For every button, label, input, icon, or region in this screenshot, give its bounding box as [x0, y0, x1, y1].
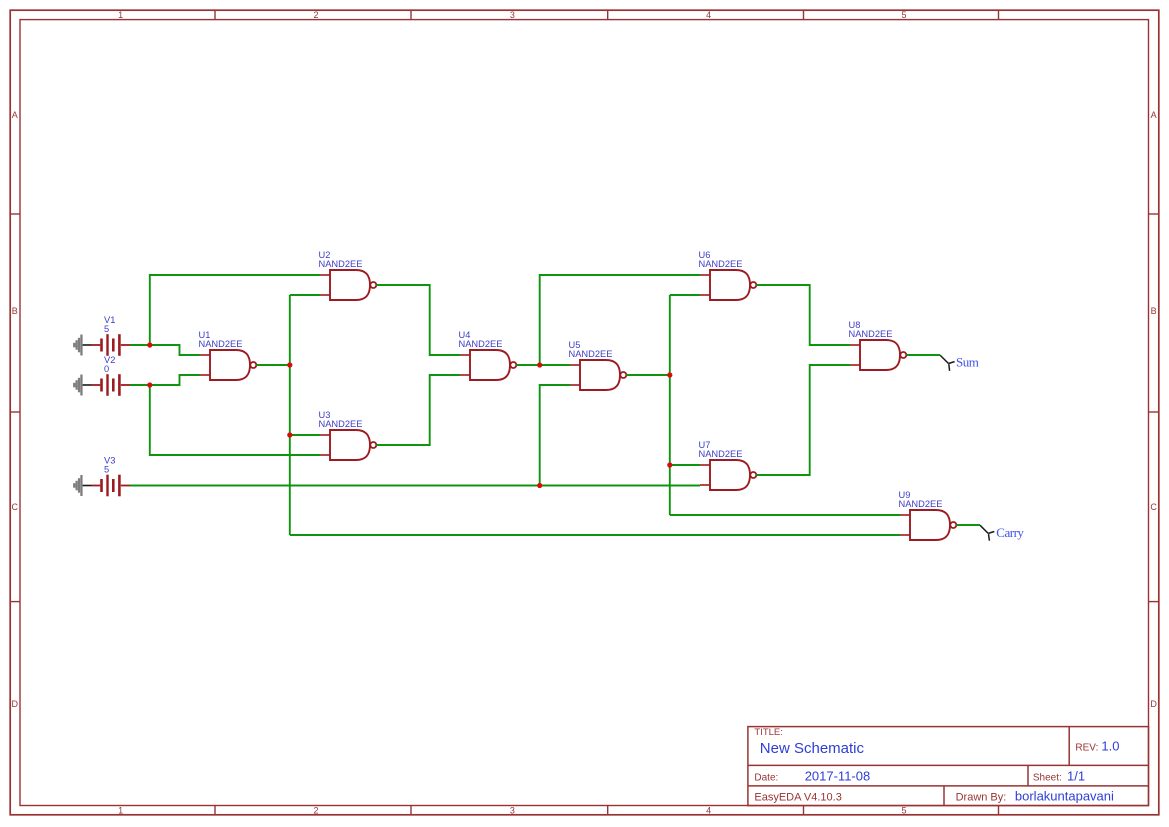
frame row letters right — [1150, 110, 1157, 709]
wire V1 node to U1 pin1 — [150, 345, 200, 355]
wire U3 output to U4 pin2 — [376, 375, 460, 445]
svg-text:NAND2EE: NAND2EE — [319, 419, 363, 429]
wire to U3 pin1 — [290, 434, 320, 436]
NAND gate U2 (NAND2EE) — [319, 250, 377, 300]
title block REV divider — [1068, 727, 1070, 766]
frame column numbers bottom — [118, 805, 906, 815]
svg-text:1/1: 1/1 — [1067, 768, 1085, 783]
svg-text:Carry: Carry — [996, 525, 1024, 540]
svg-text:D: D — [12, 699, 19, 709]
svg-text:5: 5 — [901, 805, 906, 815]
svg-text:5: 5 — [104, 465, 109, 475]
svg-text:3: 3 — [510, 10, 515, 20]
junction node U1 out — [287, 362, 292, 367]
NAND gate U7 (NAND2EE) — [699, 440, 757, 490]
junction node U5 out — [667, 372, 672, 377]
title block Sheet divider — [1027, 765, 1029, 786]
netflag Carry — [980, 525, 1024, 541]
svg-text:Sum: Sum — [956, 355, 979, 370]
wire node to U6 pin1 — [540, 275, 700, 365]
frame row letters left — [12, 110, 19, 709]
svg-text:NAND2EE: NAND2EE — [199, 339, 243, 349]
svg-text:2017-11-08: 2017-11-08 — [805, 768, 871, 783]
svg-text:New Schematic: New Schematic — [760, 740, 865, 757]
wire V3 rail to U7 pin2 — [130, 485, 700, 487]
wire U5 output vertical bus — [669, 295, 671, 515]
voltage source V3 value 5 — [92, 456, 131, 497]
frame row tick marks left — [10, 214, 20, 602]
wire to U2 pin2 — [290, 294, 320, 296]
svg-text:A: A — [12, 110, 18, 120]
svg-text:0: 0 — [104, 364, 109, 374]
svg-text:NAND2EE: NAND2EE — [699, 259, 743, 269]
frame column tick marks top — [215, 10, 999, 19]
NAND gate U3 (NAND2EE) — [319, 410, 377, 460]
junction node V3 rail / U5 pin2 — [537, 483, 542, 488]
svg-text:4: 4 — [706, 805, 711, 815]
voltage source V1 value 5 — [92, 315, 131, 356]
junction node U7 pin1 — [667, 462, 672, 467]
svg-text:NAND2EE: NAND2EE — [699, 449, 743, 459]
junction node V1/U1/U2 — [147, 342, 152, 347]
junction node U3 pin1 — [287, 432, 292, 437]
wire node to U5 pin1 — [540, 364, 570, 366]
wire U1 output to node — [256, 364, 289, 366]
wire V1 node to U2 pin1 — [150, 275, 320, 345]
wire U5 pin2 to V3 rail — [540, 385, 570, 486]
svg-text:5: 5 — [901, 10, 906, 20]
frame column numbers top — [118, 10, 906, 20]
svg-text:B: B — [1151, 306, 1157, 316]
title block row line 1 — [748, 764, 1149, 766]
title block DrawnBy divider — [943, 786, 945, 806]
wire U7 output to U8 pin2 — [756, 365, 850, 475]
svg-text:4: 4 — [706, 10, 711, 20]
svg-text:C: C — [12, 502, 19, 512]
ground (V1) — [73, 335, 91, 356]
svg-text:D: D — [1150, 699, 1157, 709]
wire U8 output to Sum flag — [907, 354, 941, 356]
svg-text:NAND2EE: NAND2EE — [459, 339, 503, 349]
wire V2 to node — [130, 384, 150, 386]
voltage source V2 value 0 — [92, 355, 131, 396]
wire U9 output to Carry flag — [957, 524, 981, 526]
wire to U6 pin2 — [670, 294, 700, 296]
svg-text:A: A — [1151, 110, 1157, 120]
svg-text:NAND2EE: NAND2EE — [899, 499, 943, 509]
NAND gate U9 (NAND2EE) — [899, 490, 957, 540]
NAND gate U5 (NAND2EE) — [569, 340, 627, 390]
svg-text:Sheet:: Sheet: — [1033, 772, 1062, 783]
ground (V2) — [73, 375, 91, 396]
wire V1 to node — [130, 344, 150, 346]
svg-text:REV:: REV: — [1075, 743, 1098, 754]
frame row tick marks right — [1149, 214, 1159, 602]
NAND gate U6 (NAND2EE) — [699, 250, 757, 300]
svg-text:B: B — [12, 306, 18, 316]
wire to U9 pin1 — [670, 514, 900, 516]
svg-text:EasyEDA V4.10.3: EasyEDA V4.10.3 — [754, 791, 841, 803]
svg-text:3: 3 — [510, 805, 515, 815]
svg-text:1: 1 — [118, 10, 123, 20]
netflag Sum — [940, 355, 978, 371]
svg-text:1: 1 — [118, 805, 123, 815]
wire U4 output to node — [516, 364, 539, 366]
svg-text:NAND2EE: NAND2EE — [569, 349, 613, 359]
NAND gate U1 (NAND2EE) — [199, 330, 257, 380]
title block row line 2 — [748, 785, 1149, 787]
svg-text:NAND2EE: NAND2EE — [319, 259, 363, 269]
wire to U7 pin1 — [670, 464, 700, 466]
NAND gate U8 (NAND2EE) — [849, 320, 907, 370]
NAND gate U4 (NAND2EE) — [459, 330, 517, 380]
svg-text:1.0: 1.0 — [1101, 739, 1119, 754]
svg-text:Drawn By:: Drawn By: — [956, 791, 1007, 803]
wire to U9 pin2 — [290, 534, 900, 536]
svg-text:C: C — [1150, 502, 1157, 512]
svg-text:NAND2EE: NAND2EE — [849, 329, 893, 339]
svg-text:2: 2 — [313, 10, 318, 20]
svg-text:borlakuntapavani: borlakuntapavani — [1015, 788, 1114, 803]
junction node V2/U1/U3 — [147, 382, 152, 387]
svg-text:Date:: Date: — [754, 772, 778, 783]
svg-text:2: 2 — [313, 805, 318, 815]
wire V2 node to U1 pin2 — [150, 375, 200, 385]
title block box — [748, 727, 1149, 806]
ground (V3) — [73, 475, 91, 496]
wire V2 node to U3 pin2 — [150, 385, 320, 455]
wire U1 output vertical bus — [289, 295, 291, 535]
frame column tick marks bottom — [215, 806, 999, 815]
wire U6 output to U8 pin1 — [756, 285, 850, 345]
svg-text:5: 5 — [104, 324, 109, 334]
wire U2 output to U4 pin1 — [376, 285, 460, 355]
junction node U4 out — [537, 362, 542, 367]
svg-text:TITLE:: TITLE: — [754, 727, 783, 738]
wire U5 output to node — [626, 374, 669, 376]
